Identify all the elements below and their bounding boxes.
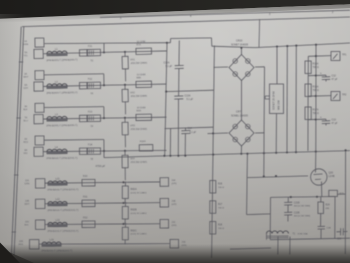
resistor R32: [82, 221, 95, 228]
connector J1 upper pin: [35, 38, 44, 47]
svg-text:(API): (API): [171, 182, 176, 185]
wire: bridge CR20 top to rail: [240, 48, 242, 55]
svg-text:+: +: [320, 71, 322, 75]
wire: top DC rail right part: [212, 46, 255, 47]
input channel row 1: [23, 35, 167, 84]
bus wire at x=166: [165, 43, 167, 156]
tap wire to TP1: [308, 55, 331, 58]
inductor L24: [41, 242, 62, 247]
svg-text:4700 µF: 4700 µF: [96, 164, 106, 168]
inductor L2: [46, 84, 68, 89]
svg-text:C13A: C13A: [185, 95, 191, 98]
svg-text:CR20: CR20: [236, 39, 243, 42]
resistor R17A: [305, 107, 311, 120]
regulator left symbol: [265, 95, 269, 97]
inductor L22: [47, 202, 68, 207]
connector J4 lower pin: [34, 147, 43, 156]
svg-text:R26: R26: [218, 184, 223, 186]
svg-text:C12A: C12A: [164, 61, 170, 64]
svg-text:.05/0.5W OHMS: .05/0.5W OHMS: [130, 162, 147, 164]
svg-text:TP1: TP1: [342, 54, 347, 57]
svg-text:J2D: J2D: [19, 241, 23, 243]
fuse F23: [87, 115, 100, 122]
svg-text:R17A: R17A: [313, 109, 319, 112]
input channel row 4: [23, 135, 166, 182]
fuse F22: [87, 82, 100, 89]
svg-text:VR2: VR2: [130, 91, 135, 94]
svg-text:WHT: WHT: [24, 204, 30, 206]
connector J3C: [160, 219, 169, 228]
svg-text:4A: 4A: [24, 138, 27, 141]
wire: row 2 upper pin loop: [44, 74, 103, 75]
transistor Q20: [311, 169, 327, 185]
svg-text:SOMEL 1N4005: SOMEL 1N4005: [231, 115, 249, 117]
resistor R31: [82, 200, 95, 207]
left soft shading on paper: [0, 14, 26, 263]
svg-text:2PM-B2001-T (2PM-B2001-T): 2PM-B2001-T (2PM-B2001-T): [47, 231, 78, 233]
wire: row 3 upper pin loop: [44, 106, 103, 109]
wire: vertical x=264: [263, 67, 266, 177]
svg-text:2PM-B2001-T (2PM-B2001-T): 2PM-B2001-T (2PM-B2001-T): [47, 210, 78, 212]
connector J2C: [35, 220, 44, 229]
svg-text:F21: F21: [88, 45, 93, 48]
resistor R27: [210, 201, 216, 214]
connector J2 lower pin: [34, 82, 43, 91]
inductor L3: [46, 117, 68, 122]
varistor R6DC: [122, 227, 128, 240]
wire: row4 step-down: [103, 151, 105, 158]
svg-text:R8A: R8A: [136, 76, 141, 79]
capacitor C21B: [287, 197, 289, 202]
resistor R9A: [136, 114, 152, 120]
svg-text:700 Ω: 700 Ω: [218, 187, 224, 189]
svg-text:J2C: J2C: [25, 221, 29, 223]
resistor R16A: [305, 84, 311, 97]
svg-text:SONET 25 OHM: SONET 25 OHM: [273, 91, 276, 110]
svg-text:VR4: VR4: [130, 157, 135, 160]
svg-text:.05/0.5W OHMS: .05/0.5W OHMS: [130, 129, 147, 131]
svg-text:GRY: GRY: [24, 88, 29, 90]
resistor R24: [318, 202, 324, 214]
svg-text:5.1 µF: 5.1 µF: [166, 66, 173, 68]
svg-text:2PM-B2001-T (2PM-B2001-T): 2PM-B2001-T (2PM-B2001-T): [46, 158, 77, 160]
sheet left border double line: [11, 27, 21, 255]
svg-text:C23: C23: [337, 239, 342, 241]
wire: vertical x=287: [286, 46, 288, 152]
svg-text:R24: R24: [326, 205, 331, 207]
svg-text:700 Ω: 700 Ω: [218, 228, 224, 230]
svg-text:400 (0.1M OHM): 400 (0.1M OHM): [294, 216, 311, 218]
svg-text:GRN: GRN: [23, 44, 28, 46]
resistor R8A: [136, 81, 152, 87]
wire: transformer left lead: [266, 234, 268, 240]
junction node row 4: [103, 150, 105, 152]
svg-text:5.1 µF: 5.1 µF: [187, 99, 194, 101]
junction node row 1: [103, 51, 105, 53]
output channel row A: [24, 174, 176, 192]
svg-text:VR1: VR1: [130, 58, 135, 61]
connector J3 upper pin: [35, 103, 44, 112]
svg-text:C4B: C4B: [327, 228, 332, 230]
svg-text:BLK: BLK: [23, 109, 28, 111]
resistor R15A: [305, 61, 311, 74]
wire: corner to oscillator box: [247, 213, 271, 216]
wire: vertical x=316 divider feed: [315, 45, 317, 152]
svg-text:.05/0.5W OHMS: .05/0.5W OHMS: [130, 63, 147, 65]
svg-text:Q20: Q20: [329, 172, 334, 175]
svg-text:R6DB: R6DB: [131, 210, 138, 212]
svg-text:WW 10W: WW 10W: [279, 99, 281, 110]
wire: row D main: [39, 243, 170, 246]
svg-text:J2A: J2A: [25, 179, 29, 182]
svg-text:R31: R31: [83, 195, 88, 198]
junction node row 3: [103, 117, 105, 119]
wire: bridge CR7 bottom to mid rail: [240, 146, 242, 154]
varistor R6DA: [122, 186, 128, 199]
svg-text:700 Ω: 700 Ω: [218, 207, 224, 209]
svg-text:J3A: J3A: [171, 179, 175, 182]
wire: bridge CR20 left to bus: [214, 66, 228, 68]
svg-text:47 µF: 47 µF: [332, 123, 339, 125]
mid horizontal wire y~90: [166, 90, 214, 91]
svg-text:C13: C13: [332, 119, 337, 122]
test point TP2: [331, 92, 340, 101]
svg-text:(0.01) W 1-MEG: (0.01) W 1-MEG: [131, 213, 147, 215]
output channel row B: [24, 195, 176, 213]
output channel row C: [24, 216, 176, 233]
wire: row 4 upper pin loop: [44, 139, 103, 142]
varistor VR1: [122, 56, 128, 69]
resistor R28: [210, 222, 216, 235]
svg-text:R27: R27: [218, 204, 223, 206]
svg-text:700 Ω: 700 Ω: [313, 113, 319, 115]
connector J3 lower pin: [34, 114, 43, 123]
svg-text:C22B: C22B: [294, 212, 300, 214]
svg-text:700 Ω: 700 Ω: [313, 67, 319, 69]
input channel row 2: [23, 68, 167, 116]
bottom-left table corner: [0, 243, 20, 263]
svg-text:5.1 µF: 5.1 µF: [190, 132, 197, 134]
svg-text:WHT: WHT: [23, 76, 29, 78]
resistor R23: [329, 190, 338, 196]
svg-text:C21B: C21B: [294, 202, 300, 204]
mid horizontal wire y~127: [165, 127, 213, 128]
wire: below box verticals: [277, 237, 279, 255]
capacitor C14: [185, 128, 187, 131]
fuse F24: [87, 148, 100, 155]
svg-text:TP2: TP2: [342, 94, 347, 97]
resistor R10A: [139, 140, 153, 151]
svg-text:R16A: R16A: [313, 86, 319, 89]
svg-text:L24: L24: [49, 239, 54, 242]
wire: regulator bottom to mid rail: [275, 114, 277, 153]
svg-text:F23: F23: [88, 111, 93, 114]
svg-text:R15A: R15A: [313, 63, 319, 66]
svg-text:10 OHM: 10 OHM: [137, 74, 146, 76]
wire: regulator top to rail: [276, 47, 278, 85]
stub wire x=170: [169, 128, 171, 156]
connector J3A: [160, 178, 169, 187]
connector J1 lower pin: [34, 49, 43, 58]
varistor VR2: [122, 89, 128, 102]
wire: bridge CR7 left stub: [208, 132, 229, 135]
border zone tick marks: [19, 61, 23, 63]
bridge rectifier CR20: [229, 55, 254, 81]
mid horizontal rail y~155: [104, 151, 350, 158]
svg-text:J3B: J3B: [171, 201, 175, 203]
wire: top DC rail left part: [45, 42, 171, 45]
wire: row A main: [45, 182, 160, 183]
wire: rail raised bump: [169, 39, 171, 43]
connector J2A: [35, 179, 45, 189]
inductor L1: [46, 51, 69, 56]
svg-text:J3D: J3D: [181, 242, 185, 244]
regulator VR20 (vertical body): [270, 84, 284, 114]
wire: horizontal y=176: [248, 176, 308, 178]
sheet top border line 2: [22, 17, 350, 27]
svg-text:8A: 8A: [24, 149, 27, 152]
tap wire y=96 to TP2: [308, 95, 331, 98]
wire: row 2 main: [43, 84, 166, 86]
svg-text:(0.01) W 1-MEG: (0.01) W 1-MEG: [131, 234, 147, 236]
connector J3D: [170, 239, 179, 248]
svg-text:400 (0.1M OHM): 400 (0.1M OHM): [294, 206, 311, 208]
svg-text:10 OHM: 10 OHM: [137, 41, 146, 43]
wire: row 3 main: [43, 117, 166, 119]
svg-text:CR7: CR7: [236, 111, 242, 114]
wire: row 4 main: [43, 150, 166, 151]
inductor L21: [47, 181, 68, 186]
bus wire at x=214 (main vertical bus): [212, 46, 215, 258]
connector J2B: [35, 199, 44, 208]
svg-text:SOMET 1N4005: SOMET 1N4005: [231, 45, 249, 47]
svg-text:GRN: GRN: [24, 183, 29, 185]
svg-text:2PM-B2001-T (2PM-B2001-T): 2PM-B2001-T (2PM-B2001-T): [47, 189, 78, 191]
varistor VR3: [122, 122, 128, 135]
svg-text:SYM CHA: SYM CHA: [298, 233, 309, 236]
oscillator sub-circuit box: [271, 196, 336, 199]
svg-text:47 µF: 47 µF: [332, 79, 339, 81]
svg-text:700 Ω: 700 Ω: [313, 90, 319, 92]
svg-text:RED: RED: [23, 142, 28, 144]
junction dots on mid rails: [166, 42, 168, 44]
svg-text:J3C: J3C: [171, 222, 175, 224]
output channel row D: [18, 238, 186, 253]
svg-text:L2/4B: L2/4B: [329, 176, 335, 178]
resistor R30: [82, 179, 95, 186]
svg-text:R32: R32: [83, 216, 88, 219]
svg-text:F22: F22: [88, 78, 93, 81]
shadow strip under top paper edge: [0, 4, 350, 23]
wire: row 1 rail drop: [103, 43, 105, 52]
wire: riser x=259 from rail to border: [258, 19, 261, 47]
svg-text:R6DC: R6DC: [131, 230, 138, 232]
junction node row 2: [103, 84, 105, 86]
svg-text:R9A: R9A: [136, 109, 141, 112]
svg-text:L22: L22: [55, 198, 60, 201]
svg-text:J2B: J2B: [25, 201, 29, 203]
bridge rectifier CR7: [229, 120, 254, 146]
connector J2D: [29, 240, 38, 249]
svg-text:R7A: R7A: [136, 43, 141, 46]
inductor L23: [47, 222, 68, 227]
svg-text:.05/0.5W OHMS: .05/0.5W OHMS: [130, 96, 147, 98]
svg-text:BLK: BLK: [24, 224, 29, 226]
capacitor C22B: [284, 211, 292, 213]
svg-text:F24: F24: [88, 143, 93, 146]
svg-text:VR3: VR3: [130, 124, 135, 127]
wire: bridge CR20 right: [255, 66, 265, 68]
capacitor C12 47uF: [308, 74, 326, 77]
connector J3B: [160, 198, 169, 207]
svg-text:R28: R28: [218, 225, 223, 227]
wire: R23 to right vertical: [338, 193, 346, 195]
filter component row 4: [79, 148, 87, 154]
bottom shadow: [0, 244, 350, 263]
input channel row 3: [23, 101, 167, 148]
connector J2 upper pin: [35, 71, 44, 80]
capacitor C23: [337, 231, 341, 233]
wire: bridge CR7 right stub: [255, 132, 264, 134]
resistor R7A: [136, 48, 152, 55]
svg-text:R30: R30: [83, 175, 88, 178]
capacitor C12A: [178, 41, 180, 66]
sheet top border line 1: [100, 10, 350, 17]
filter component row 3: [79, 115, 87, 122]
resistor chain vertical x=308: [307, 56, 309, 151]
wire: bridge CR20 bottom to CR7 top: [241, 80, 243, 120]
wire: right edge vertical x=345: [344, 150, 346, 254]
resistor R26: [210, 181, 216, 194]
svg-text:(0.01) W 1-MEG: (0.01) W 1-MEG: [131, 192, 147, 194]
svg-text:C14: C14: [188, 127, 193, 130]
transformer T1: [267, 231, 289, 234]
svg-text:(API): (API): [171, 203, 176, 206]
varistor VR4: [122, 155, 128, 168]
wire: vertical x=316 lower: [315, 152, 317, 169]
filter component row 2: [79, 82, 87, 89]
svg-text:L23: L23: [55, 219, 60, 222]
svg-text:+: +: [320, 115, 322, 119]
fuse F21: [87, 49, 100, 56]
svg-text:VIO: VIO: [24, 153, 28, 155]
wire: bus drop x=247: [246, 154, 249, 215]
svg-text:R10A: R10A: [140, 140, 146, 143]
wire: row 1 main: [43, 51, 166, 54]
connector J4 upper pin: [35, 136, 44, 145]
svg-text:(API): (API): [171, 224, 176, 227]
svg-text:C12: C12: [332, 75, 337, 78]
wire: vertical x=296: [295, 46, 297, 153]
test point TP1: [331, 52, 340, 61]
inductor L4: [46, 149, 68, 154]
svg-text:R6DA: R6DA: [131, 188, 138, 191]
svg-text:10 OHM: 10 OHM: [137, 107, 146, 109]
capacitor C13 47uF: [308, 118, 326, 121]
wire: row B main: [45, 203, 160, 204]
filter component row 1: [79, 50, 87, 57]
capacitor C4B: [320, 214, 322, 227]
svg-text:L21: L21: [55, 177, 60, 180]
wire: horizontal y=248: [230, 248, 271, 249]
wire: row C main: [45, 223, 160, 226]
varistor R6DB: [122, 207, 128, 220]
capacitor C13A: [178, 91, 180, 96]
svg-text:BLU: BLU: [24, 120, 29, 122]
